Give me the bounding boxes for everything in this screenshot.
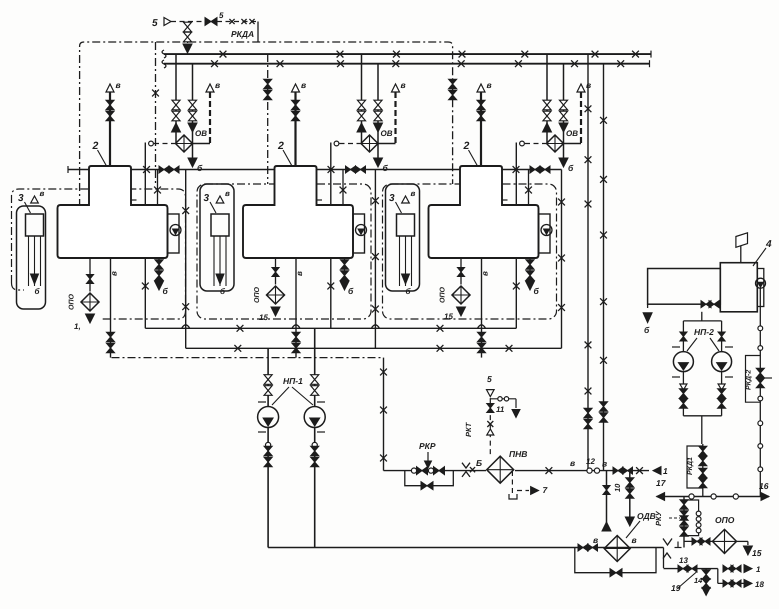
svg-text:в: в (110, 271, 119, 276)
svg-text:б: б (163, 286, 169, 296)
svg-text:ПНВ: ПНВ (509, 449, 527, 459)
svg-text:Б: Б (476, 458, 482, 468)
svg-text:15: 15 (752, 548, 762, 558)
svg-text:12: 12 (586, 457, 595, 466)
svg-text:19: 19 (671, 583, 681, 593)
svg-text:17: 17 (656, 478, 667, 488)
svg-text:РКТ: РКТ (464, 421, 473, 437)
svg-text:в: в (116, 80, 121, 90)
svg-text:РКДА: РКДА (231, 29, 254, 39)
svg-text:10: 10 (613, 483, 622, 492)
svg-text:в: в (602, 459, 607, 469)
svg-text:в: в (586, 80, 591, 90)
svg-text:в: в (215, 80, 220, 90)
svg-text:3: 3 (204, 193, 210, 204)
svg-text:ОВ: ОВ (381, 129, 393, 138)
svg-text:ОПО: ОПО (715, 515, 735, 525)
svg-text:б: б (534, 286, 540, 296)
svg-text:РКД1: РКД1 (687, 457, 694, 475)
svg-text:ОПО: ОПО (69, 294, 76, 310)
svg-text:5: 5 (219, 11, 224, 20)
svg-text:б: б (568, 163, 574, 173)
svg-text:1: 1 (756, 565, 761, 574)
svg-text:11: 11 (496, 405, 505, 414)
svg-text:б: б (383, 163, 389, 173)
svg-text:ОВ: ОВ (195, 129, 207, 138)
svg-text:в: в (40, 189, 45, 198)
svg-text:в: в (632, 535, 637, 545)
svg-text:в: в (295, 271, 304, 276)
svg-text:в: в (481, 271, 490, 276)
svg-text:15: 15 (444, 312, 453, 321)
svg-text:1,: 1, (74, 322, 81, 331)
svg-text:ОПО: ОПО (254, 287, 261, 303)
svg-text:в: в (487, 80, 492, 90)
svg-text:б: б (644, 325, 650, 335)
svg-text:в: в (411, 189, 416, 198)
svg-text:в: в (570, 458, 575, 468)
svg-text:в: в (301, 80, 306, 90)
svg-text:ОПО: ОПО (440, 287, 447, 303)
svg-text:РКР: РКР (419, 441, 436, 451)
svg-text:б: б (197, 163, 203, 173)
svg-text:18: 18 (755, 580, 764, 589)
svg-text:РКУ: РКУ (654, 510, 663, 526)
svg-text:в: в (225, 189, 230, 198)
svg-text:НП-2: НП-2 (694, 327, 714, 337)
svg-text:13: 13 (679, 556, 688, 565)
svg-text:ОВ: ОВ (566, 129, 578, 138)
svg-text:5: 5 (487, 374, 492, 384)
svg-text:3: 3 (18, 193, 24, 204)
svg-text:15: 15 (259, 313, 268, 322)
svg-text:в: в (401, 80, 406, 90)
svg-text:ОДВ: ОДВ (637, 511, 656, 521)
svg-text:1: 1 (663, 466, 668, 476)
svg-text:5: 5 (152, 18, 158, 29)
svg-text:3: 3 (389, 193, 395, 204)
svg-text:РКД-2: РКД-2 (746, 370, 753, 390)
svg-text:14: 14 (694, 576, 703, 585)
svg-text:б: б (348, 286, 354, 296)
svg-text:НП-1: НП-1 (283, 376, 303, 386)
